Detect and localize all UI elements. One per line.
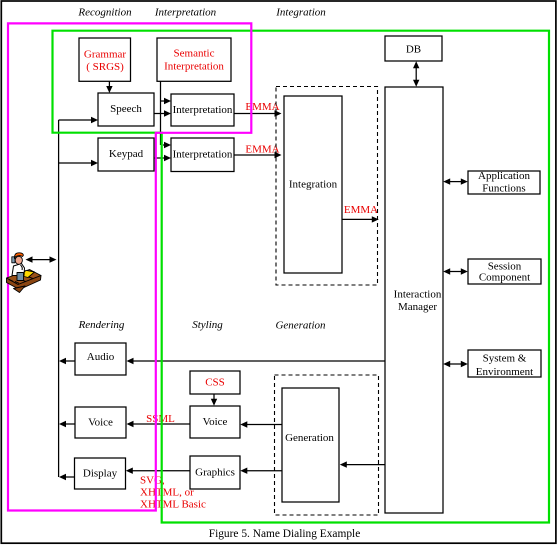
svg-text:Speech: Speech (110, 103, 142, 115)
box Interpretation 1 (171, 94, 234, 126)
arrow: Grammar to Speech (108, 81, 110, 87)
box Keypad (98, 138, 154, 171)
box Integration (284, 96, 342, 273)
paper yellow (21, 270, 35, 277)
box Semantic Interpretation (157, 38, 231, 81)
body shirt (12, 264, 25, 276)
box Grammar (SRGS) (79, 38, 131, 81)
arrow: Generation to Voice right (247, 424, 283, 426)
arrow: IM to Application Functions (double headed) (448, 181, 464, 183)
box Interpretation 2 (171, 138, 234, 172)
phone handset (12, 257, 15, 263)
dashed container: Integration (276, 87, 378, 286)
arm (21, 265, 23, 270)
arrow: Voice left to bus (65, 423, 75, 425)
box DB (385, 36, 442, 61)
hair (14, 253, 23, 259)
box Display (75, 458, 126, 489)
svg-text:Interpretation: Interpretation (173, 104, 233, 116)
arrow: Interpretation 2 to Integration container (EMMA) (275, 152, 282, 158)
wire: Semantic Interpretation feed vertical (under colored frames) (160, 81, 162, 145)
arrow: Display to bus (65, 476, 75, 478)
arrow: Interpretation 1 to Integration container (EMMA) (275, 110, 282, 116)
svg-text:Component: Component (479, 272, 530, 284)
wire: IM to Audio segment (132, 360, 386, 362)
box Session Component (468, 259, 541, 284)
arrow: IM to Session Component (double headed) (448, 271, 464, 273)
svg-text:Rendering: Rendering (78, 319, 125, 331)
svg-text:System &: System & (483, 352, 527, 364)
arrow: Generation to Graphics (247, 470, 283, 472)
box Speech (98, 93, 154, 126)
svg-text:CSS: CSS (205, 376, 225, 388)
arrow: user to bus (double headed) (31, 259, 52, 261)
box Voice (right) (190, 406, 240, 438)
dashed container: Generation (275, 375, 379, 515)
svg-text:( SRGS): ( SRGS) (86, 61, 124, 73)
box Audio (75, 343, 126, 375)
box Generation (282, 388, 339, 502)
torso chair gray (17, 273, 24, 281)
wire: Interpretation 1 EMMA segment (234, 113, 275, 115)
svg-text:Environment: Environment (476, 366, 533, 378)
svg-text:Voice: Voice (203, 416, 228, 428)
svg-text:Audio: Audio (87, 351, 115, 363)
box Application Functions (468, 171, 540, 194)
arrow: CSS to Voice (213, 394, 215, 400)
arrow: IM to Generation (346, 464, 385, 466)
arrow: bus to Keypad (59, 162, 92, 164)
wire: Keypad to Interpretation 2 segment (154, 157, 165, 159)
svg-text:Session: Session (488, 260, 522, 272)
box Interaction Manager (385, 87, 443, 513)
wire: IM to Audio long line (127, 358, 134, 364)
svg-text:Recognition: Recognition (77, 6, 132, 18)
svg-text:XHTML, or: XHTML, or (140, 487, 194, 499)
desk leg (14, 286, 26, 293)
svg-text:Generation: Generation (285, 432, 334, 444)
svg-text:Integration: Integration (275, 6, 326, 18)
desk hatch marks (9, 277, 33, 283)
arrow: Speech to Interpretation 1 (154, 113, 165, 115)
svg-text:Application: Application (478, 170, 530, 182)
desk top (7, 270, 42, 285)
svg-text:Manager: Manager (398, 301, 437, 313)
svg-text:Keypad: Keypad (109, 148, 144, 160)
box CSS (190, 371, 240, 394)
box Voice (left) (75, 407, 126, 438)
svg-text:DB: DB (406, 43, 421, 55)
svg-text:Display: Display (83, 468, 118, 480)
box System & Environment (468, 350, 541, 377)
arrow: Voice right to Voice left (SSML) (127, 421, 134, 427)
wire: Interpretation 2 EMMA segment (234, 154, 275, 156)
svg-text:Semantic: Semantic (174, 48, 215, 60)
wire: left user bus vertical (58, 120, 60, 477)
svg-text:Graphics: Graphics (195, 467, 235, 479)
svg-text:Interpretation: Interpretation (164, 60, 224, 72)
svg-text:Styling: Styling (192, 319, 223, 331)
box Graphics (190, 456, 240, 489)
svg-text:Functions: Functions (482, 182, 525, 194)
face (15, 256, 22, 264)
arrow: Graphics to Display (126, 468, 133, 474)
svg-text:Interaction: Interaction (394, 289, 442, 301)
wire: Voice to Voice segment (133, 423, 191, 425)
svg-text:Grammar: Grammar (84, 48, 126, 60)
arrow: stub to Interpretation 2 (from semantic feed) (163, 144, 165, 146)
svg-text:Figure 5. Name Dialing Exampl: Figure 5. Name Dialing Example (209, 528, 361, 540)
arrow: Audio to bus (65, 360, 75, 362)
arrow: IM to System & Environment (double headed) (448, 363, 464, 365)
arrow: bus to Speech (59, 119, 92, 121)
magenta group frame (8, 23, 251, 510)
svg-text:Interpretation: Interpretation (154, 6, 217, 18)
svg-text:XHTML Basic: XHTML Basic (140, 499, 206, 511)
arrow: DB to Interaction Manager (double headed) (415, 64, 417, 85)
arrow: stub to Interpretation 1 (from semantic feed) (161, 100, 165, 102)
arrow: Keypad to Interpretation 2 (164, 155, 171, 161)
svg-text:Generation: Generation (275, 320, 326, 332)
svg-text:Interpretation: Interpretation (173, 149, 233, 161)
desk front edge (7, 276, 42, 290)
svg-text:EMMA: EMMA (344, 204, 378, 216)
svg-text:Voice: Voice (88, 417, 113, 429)
arrow: Integration to Interaction Manager (EMMA) (342, 218, 372, 220)
wire: Graphics to Display segment (132, 470, 190, 472)
svg-text:Integration: Integration (289, 179, 338, 191)
icon: user at desk with phone (7, 253, 42, 293)
